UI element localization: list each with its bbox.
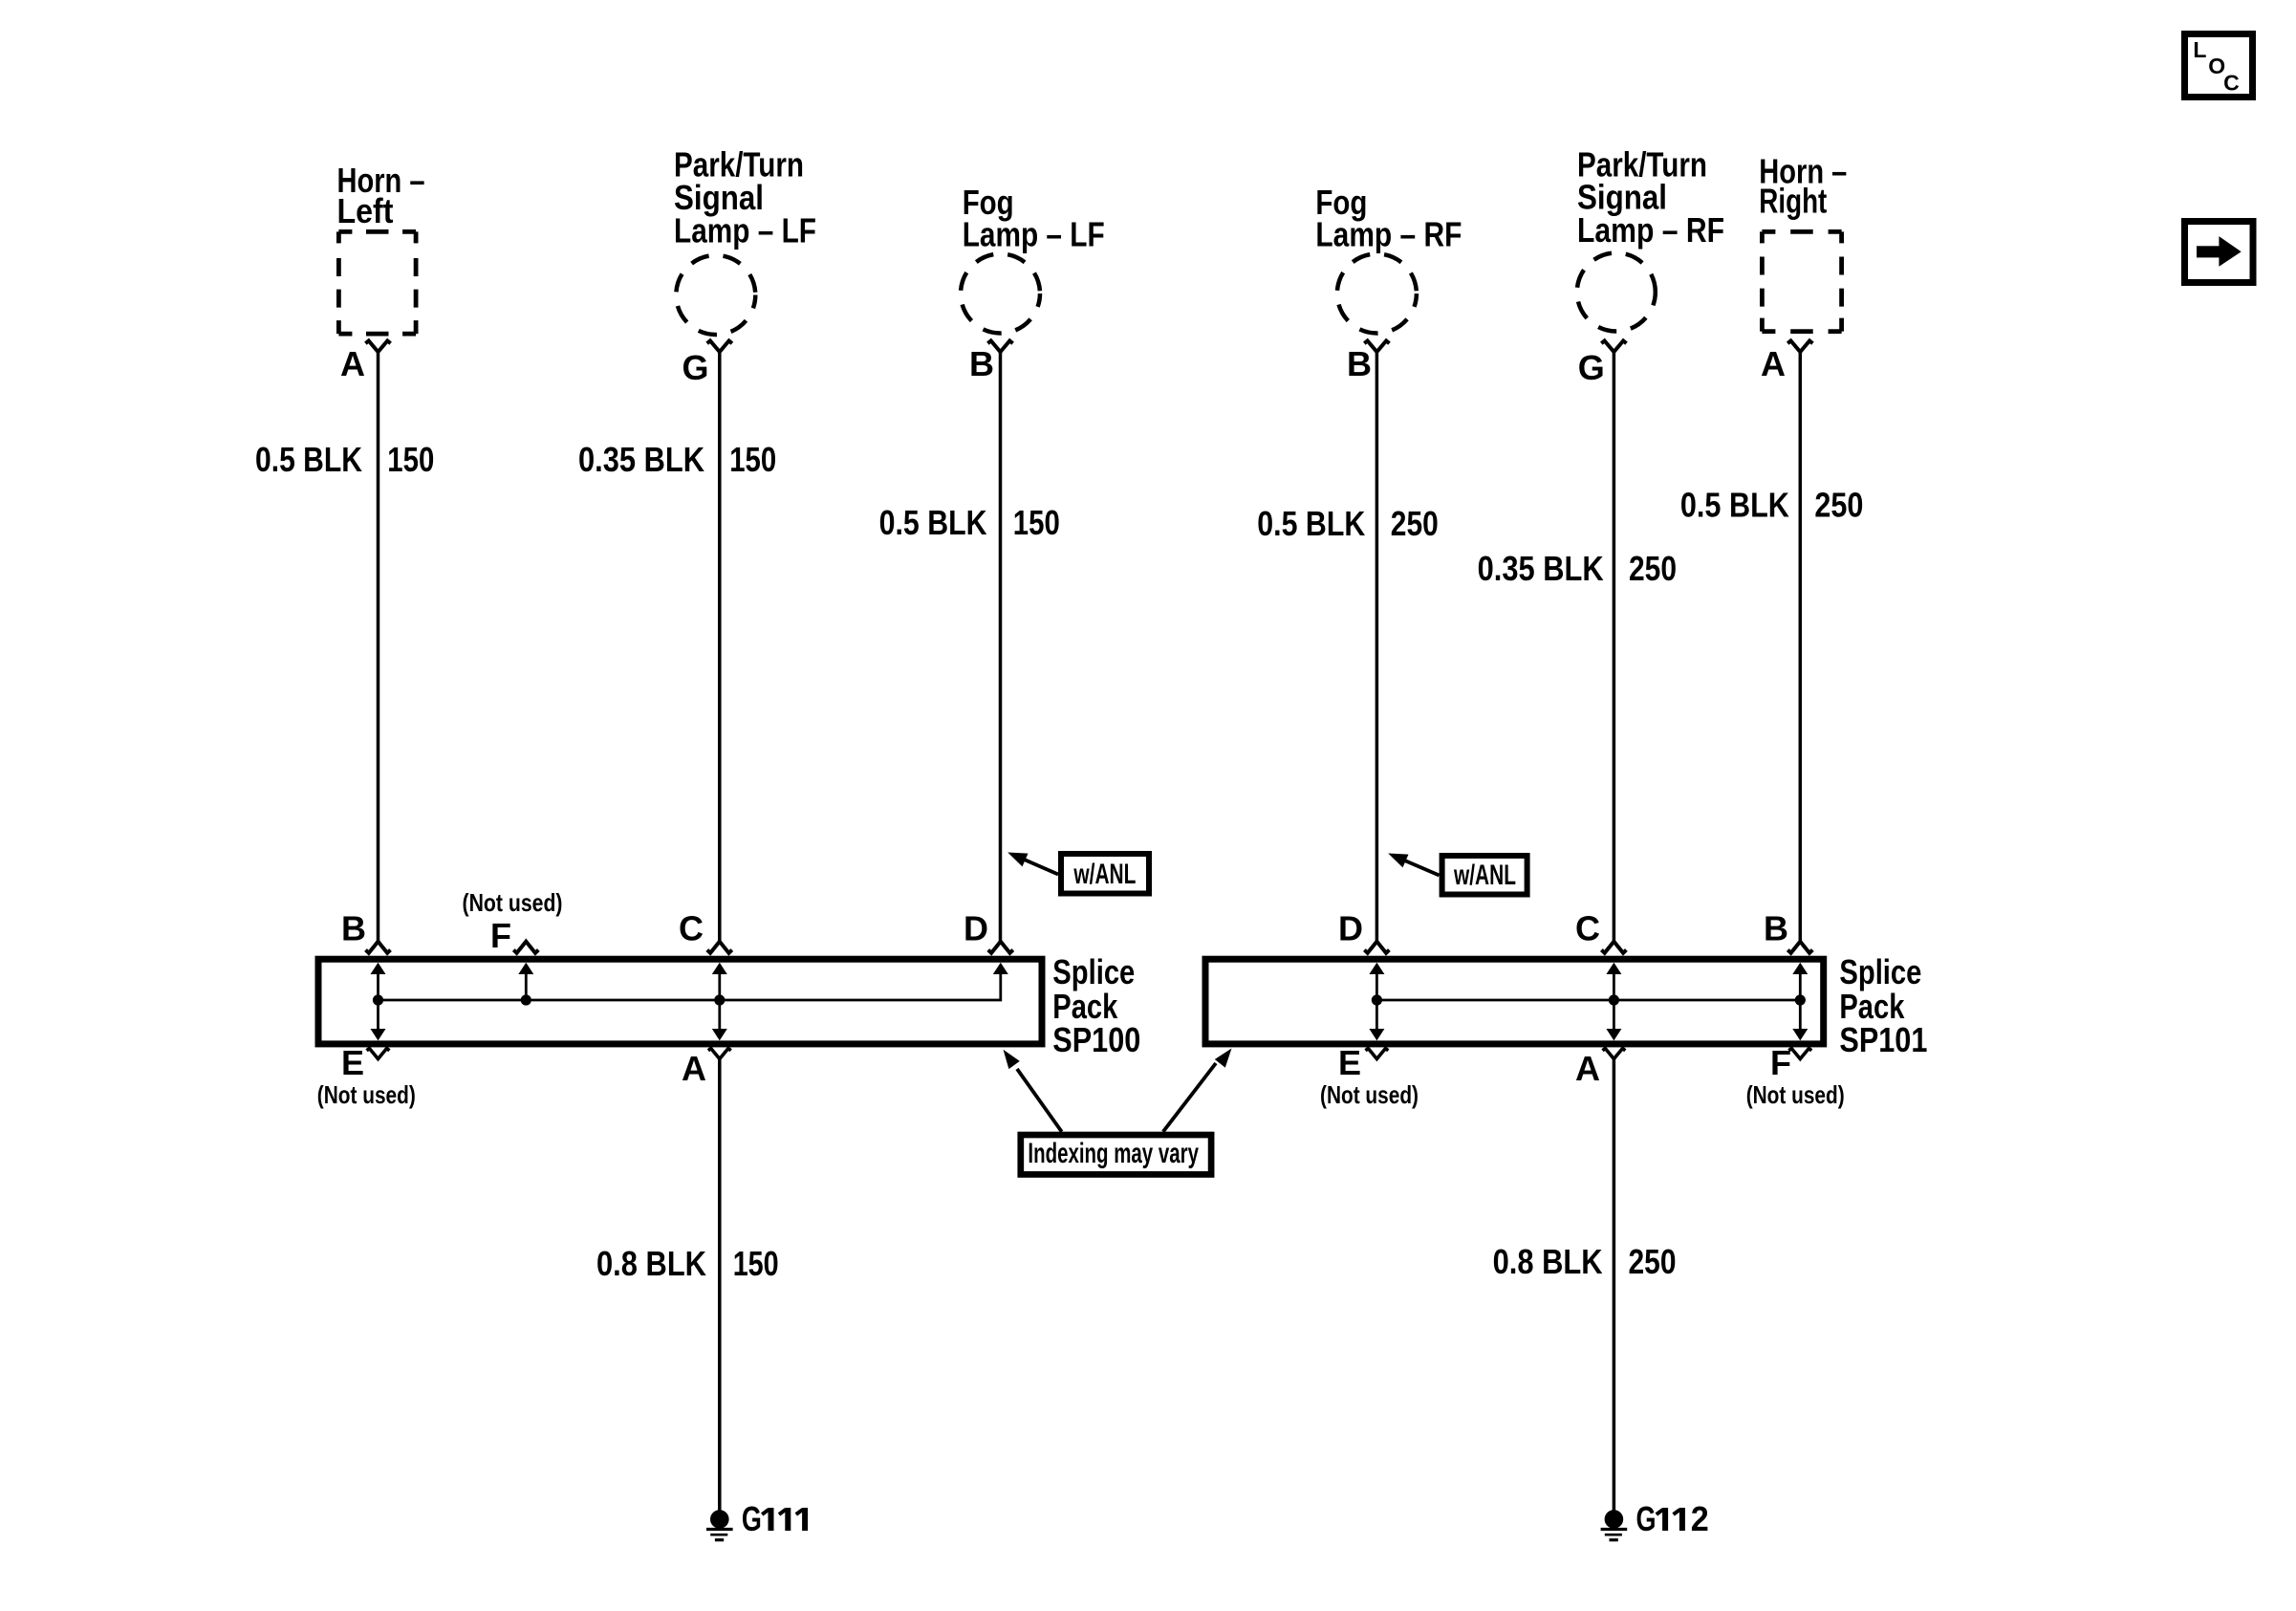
wire park/turn RF 0.35 BLK 250 bbox=[1613, 352, 1616, 942]
connector Y at fog LF pin B bbox=[987, 340, 1012, 352]
svg-text:A: A bbox=[1575, 1049, 1600, 1088]
svg-text:150: 150 bbox=[1013, 503, 1060, 542]
svg-text:0.8 BLK: 0.8 BLK bbox=[1493, 1242, 1603, 1281]
SP100 down arrow at B (to E) bbox=[377, 1000, 379, 1031]
SP101 internal bus bbox=[1376, 999, 1800, 1002]
svg-text:0.5 BLK: 0.5 BLK bbox=[879, 503, 987, 542]
svg-text:Splice: Splice bbox=[1839, 952, 1921, 991]
SP101 bus dot at C bbox=[1609, 994, 1619, 1005]
svg-text:Lamp – LF: Lamp – LF bbox=[963, 215, 1105, 254]
svg-text:Lamp – LF: Lamp – LF bbox=[674, 211, 816, 250]
wire fog LF 0.5 BLK 150 bbox=[999, 352, 1003, 942]
wire label 0.5 BLK 150 bbox=[255, 440, 434, 479]
svg-text:250: 250 bbox=[1629, 549, 1677, 588]
ground G112 symbol bbox=[1601, 1510, 1628, 1540]
horn right (dashed box component) bbox=[1762, 231, 1841, 331]
svg-text:G: G bbox=[682, 348, 709, 387]
svg-text:150: 150 bbox=[387, 440, 434, 479]
svg-text:Lamp – RF: Lamp – RF bbox=[1577, 210, 1724, 250]
wire label 0.5 BLK 250 (horn right) bbox=[1680, 486, 1864, 525]
wire label 0.5 BLK 150 (fog LF) bbox=[879, 503, 1060, 542]
svg-text:150: 150 bbox=[729, 440, 776, 479]
SP101 bus dot at D bbox=[1372, 994, 1382, 1005]
wire horn right 0.5 BLK 250 bbox=[1799, 352, 1803, 942]
w/ANL callout (left) bbox=[1007, 853, 1149, 894]
ground label G111 bbox=[742, 1499, 805, 1538]
connector Y at park/turn RF pin G bbox=[1601, 340, 1626, 352]
svg-text:C: C bbox=[679, 909, 704, 948]
SP100 up arrow at D bbox=[993, 963, 1008, 974]
wire label 0.5 BLK 250 (fog RF) bbox=[1257, 504, 1439, 543]
splice pack SP100 box bbox=[318, 959, 1042, 1044]
splice pack SP101 box bbox=[1205, 959, 1824, 1044]
connector chevron into SP101 pin D bbox=[1364, 942, 1389, 953]
svg-text:Indexing may vary: Indexing may vary bbox=[1028, 1138, 1199, 1169]
svg-text:E: E bbox=[1338, 1043, 1361, 1082]
svg-text:w/ANL: w/ANL bbox=[1453, 860, 1516, 891]
svg-text:w/ANL: w/ANL bbox=[1073, 859, 1137, 890]
page-forward arrow box bbox=[2185, 222, 2254, 283]
SP100 bus dot at F bbox=[521, 994, 531, 1005]
SP100 down arrow at C (to A) bbox=[718, 1000, 721, 1031]
svg-text:(Not used): (Not used) bbox=[1746, 1080, 1845, 1109]
wire park/turn LF 0.35 BLK 150 bbox=[718, 352, 722, 942]
connector Y at park/turn LF pin G bbox=[707, 340, 732, 352]
SP100 up arrow at C bbox=[718, 970, 721, 1000]
svg-text:0.35 BLK: 0.35 BLK bbox=[578, 440, 704, 479]
wire label 0.8 BLK 150 bbox=[596, 1244, 779, 1283]
SP101 up arrow at D bbox=[1375, 970, 1378, 1000]
connector chevron below SP101 pin F bbox=[1788, 1049, 1811, 1059]
svg-text:0.5 BLK: 0.5 BLK bbox=[255, 440, 362, 479]
svg-text:2: 2 bbox=[1691, 1499, 1709, 1538]
connector chevron below SP100 pin A bbox=[708, 1049, 731, 1059]
LOC legend box bbox=[2185, 34, 2253, 98]
SP101 down arrow at C (to A) bbox=[1613, 1000, 1615, 1031]
connector Y at fog RF pin B bbox=[1364, 340, 1389, 352]
horn left label bbox=[337, 161, 425, 230]
svg-text:G: G bbox=[1578, 348, 1605, 387]
svg-text:B: B bbox=[1347, 344, 1372, 383]
svg-text:A: A bbox=[340, 344, 365, 383]
svg-text:0.35 BLK: 0.35 BLK bbox=[1478, 549, 1604, 588]
svg-text:D: D bbox=[1338, 909, 1363, 948]
svg-text:C: C bbox=[1575, 909, 1600, 948]
SP100 internal bus bbox=[379, 969, 1001, 1000]
svg-text:B: B bbox=[341, 909, 366, 948]
park/turn signal lamp LF label bbox=[674, 145, 816, 250]
fog lamp LF (dashed circle component) bbox=[961, 254, 1040, 334]
connector Y at horn right pin A bbox=[1787, 340, 1812, 352]
SP100 bus dot at B bbox=[373, 994, 383, 1005]
svg-text:B: B bbox=[969, 344, 994, 383]
wire fog RF 0.5 BLK 250 bbox=[1375, 352, 1379, 942]
svg-text:Lamp – RF: Lamp – RF bbox=[1315, 215, 1462, 254]
connector chevron into SP100 pin C bbox=[707, 942, 732, 953]
indexing may vary callout bbox=[1004, 1049, 1232, 1175]
wire label 0.35 BLK 250 bbox=[1478, 549, 1677, 588]
svg-text:G: G bbox=[1636, 1499, 1657, 1538]
fog lamp RF label bbox=[1315, 183, 1462, 254]
wire horn left 0.5 BLK 150 bbox=[377, 352, 380, 942]
svg-text:E: E bbox=[341, 1043, 364, 1082]
SP101 up arrow at B bbox=[1799, 970, 1802, 1000]
svg-text:Left: Left bbox=[337, 191, 394, 230]
connector chevron below SP100 pin E bbox=[367, 1049, 390, 1059]
splice pack SP100 name bbox=[1052, 952, 1140, 1059]
svg-text:D: D bbox=[964, 909, 988, 948]
fog lamp LF label bbox=[963, 183, 1105, 254]
svg-text:A: A bbox=[1761, 344, 1786, 383]
w/ANL callout (right) bbox=[1388, 854, 1527, 895]
connector chevron into SP101 pin C bbox=[1601, 942, 1626, 953]
connector Y at horn left pin A bbox=[365, 340, 390, 352]
svg-text:F: F bbox=[1770, 1043, 1791, 1082]
wire SP101 A to ground G112 0.8 BLK 250 bbox=[1613, 1056, 1616, 1512]
connector chevron below SP101 pin E bbox=[1366, 1049, 1389, 1059]
connector chevron into SP100 pin F bbox=[513, 942, 538, 953]
park/turn signal lamp LF (dashed circle component) bbox=[676, 255, 755, 335]
horn left (dashed box component) bbox=[338, 231, 416, 334]
svg-text:0.8 BLK: 0.8 BLK bbox=[596, 1244, 706, 1283]
fog lamp RF (dashed circle component) bbox=[1337, 254, 1417, 334]
wire label 0.35 BLK 150 bbox=[578, 440, 776, 479]
svg-text:(Not used): (Not used) bbox=[317, 1080, 416, 1109]
svg-text:SP101: SP101 bbox=[1839, 1020, 1927, 1059]
connector chevron below SP101 pin A bbox=[1603, 1049, 1626, 1059]
svg-text:0.5 BLK: 0.5 BLK bbox=[1257, 504, 1365, 543]
svg-text:SP100: SP100 bbox=[1052, 1020, 1140, 1059]
svg-text:A: A bbox=[682, 1049, 706, 1088]
splice pack SP101 name bbox=[1839, 952, 1927, 1059]
SP100 up arrow at B bbox=[377, 970, 379, 1000]
svg-text:250: 250 bbox=[1629, 1242, 1677, 1281]
ground G111 symbol bbox=[706, 1510, 733, 1540]
svg-text:Right: Right bbox=[1759, 182, 1827, 221]
SP101 down arrow at B (to F) bbox=[1799, 1000, 1802, 1031]
SP100 bus dot at C bbox=[714, 994, 725, 1005]
wire SP100 A to ground G111 0.8 BLK 150 bbox=[718, 1056, 722, 1512]
svg-text:F: F bbox=[490, 916, 511, 955]
horn right label bbox=[1759, 152, 1847, 221]
connector chevron into SP100 pin D bbox=[988, 942, 1013, 953]
SP101 bus dot at B bbox=[1795, 994, 1806, 1005]
svg-text:G: G bbox=[742, 1499, 762, 1538]
SP101 down arrow at D (to E) bbox=[1375, 1000, 1378, 1031]
svg-text:Splice: Splice bbox=[1052, 952, 1135, 991]
connector chevron into SP101 pin B bbox=[1787, 942, 1812, 953]
svg-text:L: L bbox=[2193, 37, 2206, 62]
svg-text:250: 250 bbox=[1391, 504, 1439, 543]
park/turn signal lamp RF label bbox=[1577, 145, 1724, 250]
ground label G112 bbox=[1636, 1499, 1709, 1538]
connector chevron into SP100 pin B bbox=[366, 942, 391, 953]
svg-text:C: C bbox=[2223, 70, 2240, 95]
svg-text:250: 250 bbox=[1814, 486, 1863, 525]
SP101 up arrow at C bbox=[1613, 970, 1615, 1000]
park/turn signal lamp RF (dashed circle component) bbox=[1577, 253, 1656, 332]
svg-text:(Not used): (Not used) bbox=[463, 888, 563, 917]
svg-text:150: 150 bbox=[733, 1244, 779, 1283]
wire label 0.8 BLK 250 bbox=[1493, 1242, 1677, 1281]
svg-text:0.5 BLK: 0.5 BLK bbox=[1680, 486, 1789, 525]
svg-text:(Not used): (Not used) bbox=[1320, 1080, 1419, 1109]
svg-text:B: B bbox=[1764, 909, 1788, 948]
SP100 up arrow at F bbox=[525, 970, 528, 1000]
